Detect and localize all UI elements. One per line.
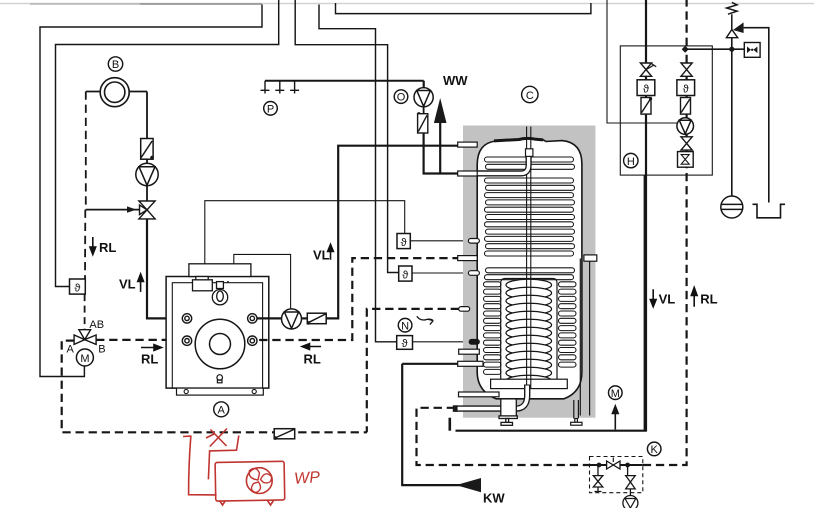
label RL left (90, 237, 116, 255)
K group dashed box (590, 457, 643, 493)
wire (146, 186, 148, 201)
wire: WW down to tank port (424, 133, 459, 174)
sensor theta 1 (397, 234, 468, 250)
3-way valve M (74, 330, 96, 345)
valve H left (640, 63, 656, 76)
boiler port left bottom (182, 336, 191, 345)
wire: B circuit dashed return (84, 92, 87, 280)
wire: tank KW outlet down (448, 418, 451, 431)
valve H right (681, 63, 692, 76)
sensor theta 2 (399, 266, 469, 282)
wire: top staple pipe (336, 3, 591, 14)
wire: flue pipe 4 to sensor line (319, 5, 397, 342)
wire: H left solid line (645, 0, 647, 432)
svg-text:B: B (98, 344, 105, 356)
tank inner vessel (501, 279, 557, 380)
wire: flue pipe 2 left (56, 0, 279, 287)
svg-text:P: P (267, 103, 274, 115)
tank WW outlet tube (478, 149, 533, 174)
flow limiter WW (417, 107, 428, 133)
storage tank C insulation (463, 126, 595, 418)
wire: into mixing valve with arrow (86, 206, 140, 212)
wire: boiler VL riser to tank (326, 146, 459, 319)
node C (522, 86, 538, 102)
label VL boiler (313, 244, 333, 262)
flow limiter valve B circuit (141, 139, 154, 160)
squiggle arrow (417, 316, 433, 324)
boiler A body (166, 264, 269, 395)
tank body (477, 138, 582, 399)
svg-text:ϑ: ϑ (683, 84, 689, 96)
boiler port right top (248, 314, 257, 323)
sensor theta H right (677, 80, 695, 96)
label RL mid-left (141, 345, 162, 367)
tank bottom U pipe (453, 385, 527, 412)
boiler drain knob (217, 375, 223, 383)
tank front leg bracket (499, 399, 517, 425)
wire (146, 159, 148, 163)
pump boiler circuit (282, 309, 302, 329)
label RL mid-right (302, 344, 321, 367)
meter box H right (678, 152, 694, 168)
wire: safety drop (731, 38, 733, 197)
svg-text:VL: VL (659, 292, 676, 307)
wire: B circuit top (86, 92, 147, 139)
wire: valve down to boiler (147, 219, 182, 319)
wire: dashed KW branch to K group (417, 408, 590, 465)
tank inner spiral coil (506, 279, 552, 387)
safety valve (726, 22, 743, 37)
sensor theta 3 (397, 336, 470, 350)
svg-text:ϑ: ϑ (402, 270, 408, 282)
H group box (620, 46, 712, 175)
svg-text:N: N (401, 320, 409, 332)
svg-text:RL: RL (304, 352, 321, 367)
svg-text:RL: RL (99, 240, 116, 255)
svg-text:VL: VL (313, 248, 330, 263)
wire: K group line (590, 464, 643, 466)
node B (108, 57, 122, 71)
sensor box theta left (70, 279, 86, 295)
wire: boiler sensor line up (205, 201, 405, 264)
filter H left (641, 97, 652, 114)
boiler burner face (195, 319, 245, 369)
tank center pipe (527, 127, 531, 389)
wire: safety valve drain (744, 28, 769, 203)
drain funnel (753, 204, 786, 218)
check valve boiler (302, 313, 327, 325)
node M right (609, 386, 623, 400)
manometer (721, 196, 743, 218)
wire: right drop to H-group pump (607, 0, 677, 123)
junction dot safety (729, 47, 734, 52)
wire: flue pipe 3 to sensor line (295, 0, 399, 273)
tank right channel (580, 255, 597, 416)
svg-text:K: K (651, 444, 659, 456)
wire: dashed tank mid to boiler return (257, 258, 461, 340)
node H (624, 153, 638, 167)
node O (394, 90, 408, 104)
junction dot H right (682, 46, 689, 53)
wire: WW line (423, 81, 425, 88)
svg-text:ϑ: ϑ (402, 338, 408, 350)
boiler port right bottom (248, 336, 257, 345)
red heat pump sketch WP (183, 429, 321, 506)
valve H right lower (681, 137, 692, 150)
svg-text:A: A (218, 405, 226, 417)
svg-text:ϑ: ϑ (74, 283, 80, 295)
boiler thermometer (212, 281, 229, 305)
wire: tank KW bottom run (456, 175, 645, 431)
svg-text:RL: RL (700, 292, 717, 307)
label RL right (691, 288, 717, 307)
check valve K (607, 458, 620, 470)
safety valve spring (727, 2, 737, 29)
boiler control box (193, 277, 213, 291)
wire: boiler to pump control line (234, 254, 291, 309)
heat consumer circle B (100, 78, 129, 107)
tank rear leg (571, 400, 582, 425)
node P (264, 102, 278, 116)
svg-text:VL: VL (119, 277, 136, 292)
sensor theta H left (637, 80, 655, 96)
meter box top right (744, 43, 760, 58)
svg-text:KW: KW (483, 491, 505, 506)
arrow WW up (434, 98, 447, 174)
tank top weld band (494, 138, 543, 141)
pump WW circulation (414, 88, 433, 107)
node K (647, 442, 661, 456)
svg-text:M: M (611, 388, 620, 400)
tank lower coil side turns (484, 282, 577, 375)
svg-text:M: M (80, 353, 89, 365)
svg-text:C: C (526, 90, 534, 102)
wire: dashed A-port down and bottom run (62, 341, 367, 433)
top hairline rule (0, 3, 814, 5)
wire: junction to safety line (685, 48, 744, 50)
motor M of 3-way valve (76, 349, 93, 366)
tank upper heating coil (485, 157, 575, 280)
wire: flue pipe 1 left (40, 5, 262, 377)
label VL left (119, 274, 144, 292)
valve K right with pump (623, 465, 638, 508)
svg-text:H: H (627, 156, 635, 168)
svg-text:WW: WW (443, 73, 468, 88)
wire: dashed B-port to boiler (96, 339, 182, 341)
svg-text:B: B (112, 59, 119, 71)
arrow KW (456, 478, 481, 492)
expansion manifold P (261, 81, 424, 94)
svg-text:A: A (67, 344, 75, 356)
svg-text:O: O (397, 92, 406, 104)
check valve on bottom dashed run (274, 429, 295, 440)
tank lower coil bottom bar (491, 379, 568, 388)
wire: dashed tank lower to bottom run (367, 309, 459, 432)
junction dots K (597, 463, 602, 468)
wire: boiler VL out (257, 317, 282, 319)
svg-text:RL: RL (141, 352, 158, 367)
boiler port left top (182, 314, 191, 323)
pump H right (677, 118, 694, 135)
svg-text:ϑ: ϑ (643, 84, 649, 96)
tank ports left (458, 142, 499, 397)
node A label (214, 402, 229, 417)
node N (398, 318, 412, 332)
svg-text:WP: WP (294, 469, 321, 488)
svg-text:ϑ: ϑ (401, 237, 407, 249)
valve K left (593, 465, 603, 492)
filter H right (681, 98, 691, 115)
wire: dashed to 3-way valve AB (84, 294, 86, 329)
arrow M up (612, 406, 618, 430)
wire: tank supply from boiler heavy (402, 364, 481, 485)
pump B circuit (136, 163, 158, 185)
mixing valve B circuit (139, 201, 155, 219)
label VL right (650, 289, 675, 307)
